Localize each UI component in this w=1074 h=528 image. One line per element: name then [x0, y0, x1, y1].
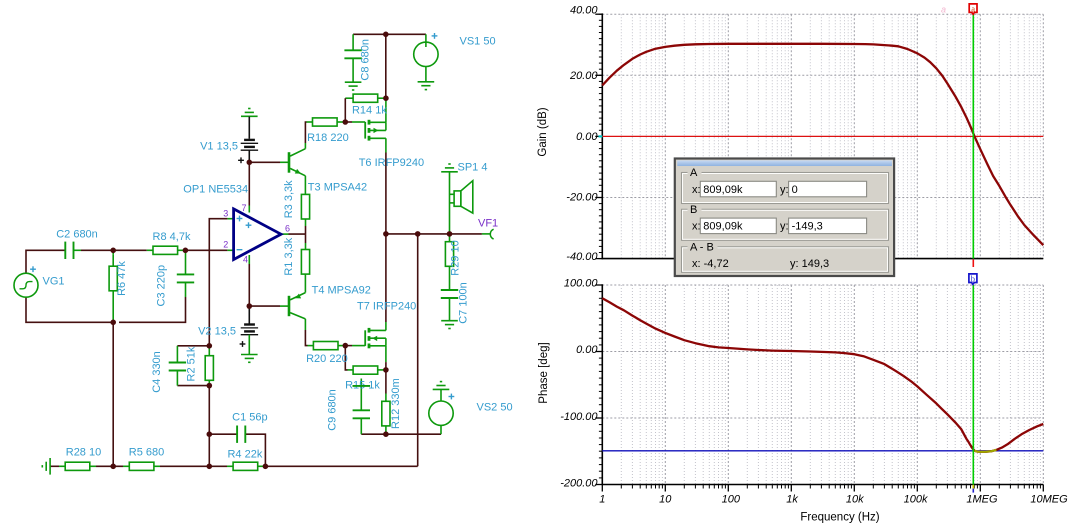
svg-text:C1 56p: C1 56p	[232, 411, 267, 423]
svg-text:-20.00: -20.00	[566, 192, 598, 204]
resistor R12 330m	[382, 378, 402, 429]
resistor R15 1k	[345, 366, 380, 391]
wire: VS2 bottom lead	[440, 425, 442, 434]
svg-text:C7 100n: C7 100n	[458, 282, 470, 324]
wire: R12 to negative rail node	[385, 426, 387, 434]
svg-text:x:: x:	[692, 184, 701, 196]
wire: R2 leads	[208, 346, 210, 386]
wire: R8 to op-amp pin 2	[178, 249, 234, 251]
wire: T3 collector to R18	[305, 122, 312, 149]
cursor measurement dialog	[675, 159, 894, 277]
wire: op-amp output	[281, 233, 306, 235]
svg-text:1MEG: 1MEG	[966, 493, 998, 505]
wire: T6 gate node to gate	[345, 121, 365, 123]
capacitor C8 680n	[344, 39, 371, 81]
svg-text:R1 3,3k: R1 3,3k	[283, 237, 295, 275]
wire: R1 to T4 emitter	[304, 274, 306, 292]
svg-text:R2 51k: R2 51k	[186, 346, 198, 381]
ground (input, left)	[42, 458, 50, 475]
wire: T7 drain to output node	[385, 234, 387, 331]
frequency axis labels	[599, 493, 1068, 505]
transistor T4 MPSA92	[289, 285, 371, 319]
ground (V2)	[241, 355, 258, 363]
svg-text:100: 100	[722, 493, 741, 505]
-149.3 deg cursor line (blue)	[602, 450, 1043, 452]
ground (VS2, inverted)	[433, 382, 450, 390]
svg-text:V2 13,5: V2 13,5	[198, 326, 236, 338]
mosfet T6 IRFP9240	[359, 120, 424, 169]
resistor R2 51k	[186, 346, 214, 381]
svg-text:809,09k: 809,09k	[703, 184, 743, 196]
mosfet T7 IRFP240	[357, 301, 416, 349]
svg-text:R6 47k: R6 47k	[116, 261, 128, 296]
resistor R3 3,3k	[283, 180, 310, 219]
transistor T3 MPSA42	[289, 149, 367, 194]
svg-text:R5 680: R5 680	[129, 447, 164, 459]
phase plot grid	[602, 285, 1043, 485]
svg-text:2: 2	[223, 240, 228, 250]
wire: C8 top lead	[352, 34, 354, 50]
svg-text:R20 220: R20 220	[306, 353, 348, 365]
wire: C1 node down to bottom rail	[208, 434, 210, 466]
wire: C8 bottom lead	[352, 58, 354, 82]
resistor R14 1k	[352, 94, 387, 116]
ground (C7)	[441, 321, 458, 329]
wire: top rail	[353, 33, 426, 35]
wire: R6 body leads	[112, 254, 114, 322]
op-amp OP1 NE5534	[183, 184, 290, 265]
cursor a vertical line	[972, 14, 974, 267]
wire: C4 leads	[176, 346, 178, 386]
capacitor C4 330n	[151, 351, 186, 393]
gain plot x-axis	[602, 258, 1043, 260]
wire: C9 top lead	[360, 379, 362, 435]
svg-text:y:: y:	[780, 221, 789, 233]
svg-text:-149,3: -149,3	[792, 221, 823, 233]
capacitor C9 680n	[327, 386, 371, 431]
resistor R18 220	[307, 118, 349, 144]
capacitor C1 56p	[232, 411, 267, 443]
svg-text:6: 6	[285, 224, 290, 234]
resistor R1 3,3k	[283, 237, 310, 275]
svg-text:b: b	[971, 273, 975, 283]
wire: V2 node to T4 base	[249, 305, 288, 307]
svg-text:3: 3	[223, 209, 228, 219]
cursor b handle	[969, 273, 977, 284]
svg-text:R28 10: R28 10	[66, 447, 101, 459]
ground (SP1, inverted)	[441, 164, 458, 172]
svg-text:10: 10	[659, 493, 672, 505]
svg-text:100k: 100k	[904, 493, 928, 505]
wire: R18 to T6 gate node	[337, 121, 345, 123]
resistor R28 10	[65, 447, 101, 471]
phase axis labels	[560, 278, 598, 490]
capacitor C2 680n	[56, 228, 98, 259]
wire: SP1 to output node	[449, 172, 451, 234]
svg-text:C2 680n: C2 680n	[56, 228, 98, 240]
svg-text:R8 4,7k: R8 4,7k	[153, 231, 191, 243]
resistor R5 680	[129, 447, 164, 471]
axis titles	[537, 107, 880, 523]
ground (VS1)	[418, 82, 435, 90]
svg-text:VS1 50: VS1 50	[460, 36, 496, 48]
wire: T7 gate node to R15	[345, 346, 353, 370]
svg-text:VS2 50: VS2 50	[477, 402, 513, 414]
resistor R6 47k	[109, 261, 128, 296]
svg-text:A - B: A - B	[690, 241, 714, 253]
wire: C4/R2 top connector	[177, 345, 209, 347]
svg-text:-100.00: -100.00	[560, 411, 598, 423]
wire: T6 drain to output node	[385, 138, 387, 234]
svg-text:1k: 1k	[786, 493, 798, 505]
svg-text:4: 4	[243, 255, 248, 265]
wire: R14 node to T6 source	[385, 98, 387, 122]
svg-text:Phase [deg]: Phase [deg]	[538, 342, 550, 403]
wire: C1 left lead	[209, 433, 237, 435]
svg-text:Frequency (Hz): Frequency (Hz)	[800, 512, 879, 524]
svg-text:V1 13,5: V1 13,5	[200, 141, 238, 153]
wire: C2 to R8/R6 node	[74, 249, 154, 251]
generator VG1	[14, 266, 65, 297]
speaker SP1 4	[450, 162, 488, 214]
gain axis labels	[566, 5, 598, 264]
phase curve	[602, 298, 1043, 452]
gain plot grid	[602, 14, 1043, 258]
gain curve	[602, 44, 1043, 245]
wire: op-amp pin 4 to V2	[248, 255, 250, 306]
wire: VG1 top to C2	[26, 250, 65, 273]
wire: VAS node to R1	[305, 234, 307, 249]
svg-text:-40.00: -40.00	[566, 251, 598, 263]
svg-text:B: B	[690, 204, 697, 216]
svg-text:SP1 4: SP1 4	[458, 162, 488, 174]
svg-text:R4 22k: R4 22k	[227, 449, 262, 461]
svg-text:T6 IRFP9240: T6 IRFP9240	[359, 157, 424, 169]
svg-text:OP1 NE5534: OP1 NE5534	[183, 184, 248, 196]
wire: R14 left lead	[345, 98, 353, 122]
0 dB cursor line (red)	[599, 135, 1044, 137]
svg-text:VF1: VF1	[478, 218, 498, 230]
svg-text:x:: x:	[692, 221, 701, 233]
svg-text:C8 680n: C8 680n	[359, 39, 371, 81]
svg-text:x: -4,72: x: -4,72	[692, 258, 729, 270]
wire: V1 node to T3 base	[249, 161, 288, 163]
wire: rail to R14 node	[385, 34, 387, 98]
voltage pin VF1	[478, 218, 498, 240]
wire: R20 right to T7 gate	[338, 345, 365, 347]
wire: C4/R2 bottom connector	[177, 385, 209, 387]
svg-text:20.00: 20.00	[569, 70, 598, 82]
wire: R6 node down to bottom rail	[112, 322, 114, 466]
svg-text:VG1: VG1	[43, 276, 65, 288]
svg-text:1: 1	[599, 493, 605, 505]
capacitor C7 100n	[441, 282, 470, 324]
svg-text:-200.00: -200.00	[560, 478, 598, 490]
wire: output feedback drop	[417, 234, 419, 466]
wire: T3 emitter to R3	[304, 176, 306, 195]
highlighted phase segment between cursors	[975, 450, 997, 452]
svg-text:Gain (dB): Gain (dB)	[537, 107, 549, 156]
svg-text:0.00: 0.00	[576, 344, 598, 356]
wire: C3 top lead	[185, 250, 187, 274]
gain plot y-axis	[595, 13, 602, 259]
svg-text:0.00: 0.00	[576, 131, 598, 143]
wire: T4 collector to R20	[305, 319, 313, 346]
ground (V1, inverted)	[241, 109, 258, 117]
resistor R20 220	[306, 342, 348, 366]
wire: T7 source to R15 node	[385, 346, 387, 370]
ground (C8)	[345, 82, 362, 90]
svg-text:40.00: 40.00	[570, 5, 598, 17]
wire: R3 to VAS node	[305, 219, 307, 235]
wire: R15 node to R12	[385, 370, 387, 401]
svg-text:a: a	[971, 3, 975, 13]
wire: VG1 bottom rail	[26, 297, 113, 322]
battery V2 13,5	[198, 306, 258, 354]
wire: R15 right lead	[378, 369, 386, 371]
source VS1 50	[414, 33, 496, 67]
svg-text:R12 330m: R12 330m	[390, 378, 402, 429]
battery V1 13,5	[200, 117, 258, 164]
capacitor C3 220p	[155, 265, 194, 307]
svg-text:T3 MPSA42: T3 MPSA42	[308, 182, 367, 194]
wire: R2 node down to C1 node	[208, 386, 210, 435]
svg-text:a: a	[941, 5, 946, 15]
wire: negative rail	[361, 433, 441, 435]
phase plot y-axis	[595, 284, 602, 485]
wire: R14 right lead	[378, 97, 386, 99]
svg-text:T7 IRFP240: T7 IRFP240	[357, 301, 416, 313]
cursor a handle	[941, 3, 977, 14]
svg-text:809,09k: 809,09k	[703, 221, 743, 233]
svg-text:C4 330n: C4 330n	[151, 351, 163, 393]
svg-text:10k: 10k	[846, 493, 864, 505]
resistor R4 22k	[227, 449, 262, 471]
cursor b vertical line	[972, 285, 974, 493]
phase plot x-axis	[602, 485, 1043, 492]
svg-text:T4 MPSA92: T4 MPSA92	[312, 285, 371, 297]
wire: C3 bottom to rail	[119, 282, 186, 322]
wire: R6 top lead	[112, 250, 114, 254]
svg-text:R3 3,3k: R3 3,3k	[283, 180, 295, 218]
wire: feedback node to op-amp pin 3	[209, 219, 233, 346]
wire: C1 right to R4 right	[245, 434, 265, 466]
wire: op-amp pin 7 to V1	[248, 162, 250, 212]
svg-text:A: A	[690, 167, 698, 179]
wire: VS1 leads	[425, 34, 427, 82]
source VS2 50	[429, 389, 513, 425]
svg-text:10MEG: 10MEG	[1030, 493, 1068, 505]
svg-text:C3 220p: C3 220p	[155, 265, 167, 307]
resistor R8 4,7k	[153, 231, 191, 254]
wire: output to VF1	[482, 233, 490, 235]
svg-text:C9 680n: C9 680n	[327, 389, 339, 431]
svg-text:y:: y:	[780, 184, 789, 196]
wire: output node row	[386, 233, 482, 235]
resistor R29 10	[445, 240, 461, 275]
wire: bottom rail	[50, 465, 418, 467]
svg-text:y: 149,3: y: 149,3	[790, 258, 829, 270]
wire: R29 leads	[449, 234, 451, 290]
wire: C7 lead to ground	[449, 298, 451, 321]
svg-text:R18 220: R18 220	[307, 132, 349, 144]
svg-text:7: 7	[241, 203, 246, 213]
svg-text:R29 10: R29 10	[450, 240, 462, 275]
svg-text:0: 0	[792, 184, 798, 196]
svg-text:R14 1k: R14 1k	[352, 104, 387, 116]
svg-text:100.00: 100.00	[564, 278, 599, 290]
